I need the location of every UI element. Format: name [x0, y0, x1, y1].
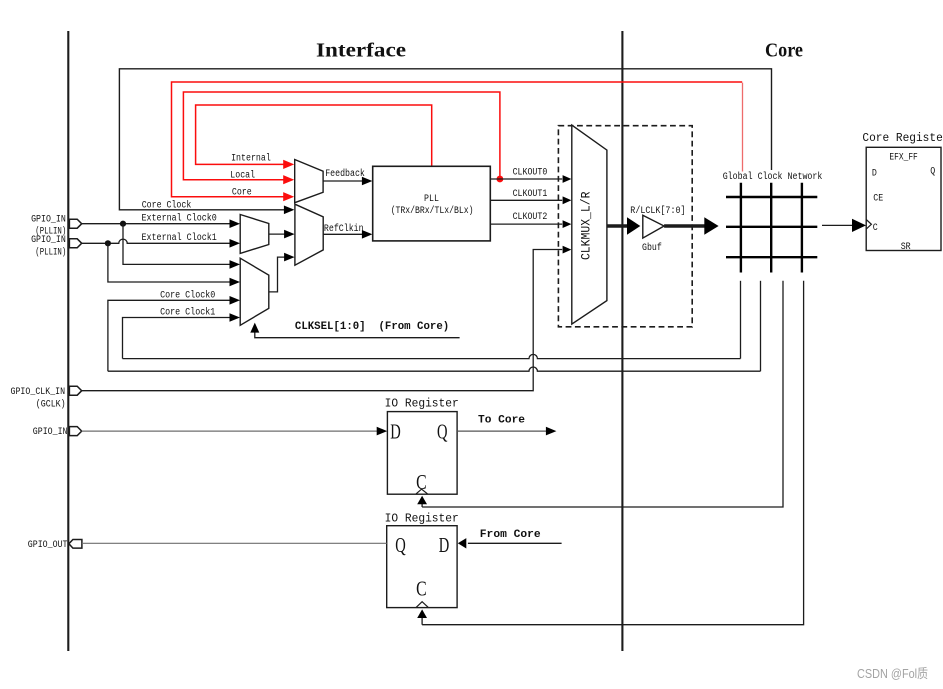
- svg-text:RefClkin: RefClkin: [324, 223, 364, 235]
- wire External Clock1 (hops over branch A): [82, 239, 232, 243]
- svg-text:Gbuf: Gbuf: [642, 242, 662, 254]
- register block IO Register 2: [387, 526, 457, 608]
- junction dot B on External Clock1: [105, 240, 111, 246]
- arrow Core Clock1 into U4: [230, 313, 241, 322]
- wire loop A (global net column1 down, to Core Clock1): [740, 281, 742, 359]
- svg-text:(PLLIN): (PLLIN): [35, 246, 66, 258]
- svg-text:Interface: Interface: [316, 40, 406, 62]
- arrow into Core Register C: [852, 219, 866, 232]
- svg-text:Q: Q: [395, 533, 406, 557]
- arrow into PLL RefClkin: [362, 230, 373, 239]
- svg-text:IO Register: IO Register: [385, 397, 459, 411]
- red arrow Internal input: [283, 160, 294, 169]
- svg-text:R/LCLK[7:0]: R/LCLK[7:0]: [630, 205, 685, 217]
- wire Core Clock1 (riser from loop A): [123, 318, 232, 359]
- arrow up into ioreg2 C: [417, 609, 427, 618]
- svg-text:Core Clock1: Core Clock1: [160, 306, 215, 318]
- svg-text:Core: Core: [765, 40, 803, 62]
- arrow CLKOUT0 into CLKMUX: [563, 175, 572, 183]
- wire red Core feedback vertical (from Global Clock Network, pale): [742, 83, 744, 172]
- grid row 3: [726, 256, 817, 258]
- wire GPIO_IN to D: [82, 430, 379, 432]
- register block EFX_FF: [866, 147, 941, 250]
- red arrow Core input: [283, 192, 294, 201]
- arrow U4 output into U2: [284, 253, 295, 262]
- wire thick CLKMUX output: [607, 224, 628, 228]
- svg-text:Local: Local: [230, 170, 255, 182]
- wire grid to Core Register clock: [822, 224, 854, 226]
- mux U3 (External Clock select): [240, 215, 269, 254]
- pin GPIO_OUT: [69, 540, 82, 549]
- svg-text:Q: Q: [930, 166, 935, 177]
- arrow CLKSEL into U4 bottom: [250, 323, 259, 333]
- svg-text:D: D: [439, 533, 450, 557]
- wire red Local feedback loop (from CLKOUT0 junction): [183, 92, 500, 180]
- grid column 3: [801, 183, 803, 273]
- wire red Core feedback loop (outer): [172, 82, 743, 197]
- wire U4 output to U2: [269, 257, 286, 292]
- pin GPIO_CLK_IN (GCLK): [69, 386, 81, 395]
- arrow CLKOUT1 into CLKMUX: [563, 196, 572, 204]
- wire Core Clock feedback (from Global Clock Network top loop): [119, 69, 771, 210]
- wire From Core to D: [468, 542, 562, 544]
- svg-text:CLKOUT2: CLKOUT2: [513, 212, 548, 223]
- svg-text:CLKOUT0: CLKOUT0: [513, 167, 548, 178]
- svg-text:SR: SR: [901, 242, 911, 253]
- grid column 1: [740, 183, 742, 273]
- junction dot CLKOUT0/Local (red): [497, 176, 504, 183]
- svg-text:Feedback: Feedback: [325, 168, 365, 180]
- svg-text:GPIO_IN: GPIO_IN: [31, 235, 66, 246]
- wire CLKOUT0: [490, 178, 562, 180]
- wire loop A horizontal (hops over GCLK riser): [123, 354, 741, 358]
- clock wedge (ioreg2): [416, 602, 428, 608]
- arrow External Clock1 into U3: [230, 239, 241, 248]
- wire clock into ioreg2: [421, 617, 423, 625]
- svg-text:Internal: Internal: [231, 152, 271, 164]
- arrow thick into Gbuf: [627, 217, 640, 235]
- register block IO Register 1: [387, 412, 457, 495]
- wire loop B (global net column2 down, to Core Clock0): [760, 281, 762, 371]
- wire thick Gbuf output: [664, 224, 704, 228]
- svg-text:Core Clock0: Core Clock0: [160, 289, 215, 301]
- svg-text:Core: Core: [232, 187, 252, 198]
- svg-text:C: C: [416, 576, 427, 600]
- mux U2 (RefClkin select): [295, 204, 323, 265]
- wire U3 output to U2: [269, 233, 286, 235]
- wire Q to core: [457, 430, 547, 432]
- wire clock into ioreg1: [421, 503, 423, 507]
- svg-text:CLKOUT1: CLKOUT1: [513, 189, 548, 200]
- arrow branch B into U4: [230, 278, 241, 287]
- pin GPIO_IN (PLLIN) upper: [69, 219, 81, 228]
- svg-text:External Clock1: External Clock1: [142, 232, 217, 244]
- wire loop B horizontal (hops over GCLK riser): [108, 367, 761, 371]
- arrow Core Clock0 into U4: [230, 296, 241, 305]
- interface/core boundary: core column line: [621, 31, 623, 651]
- svg-text:C: C: [416, 470, 427, 494]
- arrow into PLL Feedback: [362, 177, 373, 186]
- wire red Internal feedback loop (from PLL top): [196, 105, 432, 166]
- grid row 1: [726, 196, 817, 198]
- pin GPIO_IN (io): [69, 427, 81, 436]
- wire External Clock0: [82, 223, 232, 225]
- svg-text:(TRx/BRx/TLx/BLx): (TRx/BRx/TLx/BLx): [391, 205, 474, 217]
- arrow branch A into U4: [230, 260, 241, 269]
- grid column 2: [770, 183, 772, 273]
- wire CLKSEL[1:0] select line: [255, 332, 460, 338]
- svg-text:GPIO_IN: GPIO_IN: [31, 214, 66, 225]
- wire Feedback mux output to PLL: [323, 180, 363, 182]
- interface/core boundary: IO column line: [67, 31, 69, 651]
- dashed block boundary (clock mux region): [558, 126, 692, 327]
- buffer Gbuf: [643, 215, 664, 238]
- svg-text:From Core: From Core: [480, 529, 541, 541]
- svg-text:CE: CE: [873, 193, 883, 204]
- mux U1 (Feedback select): [295, 160, 323, 203]
- junction dot A on External Clock0: [120, 221, 126, 227]
- grid row 2: [726, 226, 817, 228]
- svg-text:PLL: PLL: [424, 194, 439, 205]
- clock wedge (core reg): [866, 220, 871, 230]
- svg-text:D: D: [872, 169, 877, 180]
- arrow into ioreg2 D: [458, 538, 467, 548]
- arrow GCLK into CLKMUX: [563, 246, 572, 254]
- wire CLKOUT1: [490, 199, 562, 201]
- arrow U3 output into U2: [284, 230, 295, 239]
- arrow External Clock0 into U3: [230, 219, 241, 228]
- arrow CLKOUT2 into CLKMUX: [563, 220, 572, 228]
- arrow into RefClkin mux (Core Clock): [284, 206, 295, 215]
- svg-text:GPIO_IN: GPIO_IN: [33, 427, 68, 438]
- pin GPIO_IN (PLLIN) lower: [69, 239, 81, 248]
- wire ioreg2 Q to GPIO_OUT: [82, 542, 387, 544]
- PLL block: [373, 166, 491, 241]
- arrow To Core: [546, 427, 557, 436]
- red arrow Local input: [283, 175, 294, 184]
- arrow thick into Global Clock Network: [704, 217, 718, 235]
- svg-text:C: C: [873, 223, 878, 234]
- wire RefClkin mux output to PLL: [323, 233, 363, 235]
- wire drop to IO Register1 clock: [422, 281, 783, 507]
- svg-text:GPIO_OUT: GPIO_OUT: [28, 540, 68, 551]
- wire drop to IO Register2 clock: [422, 281, 803, 625]
- svg-text:GPIO_CLK_IN: GPIO_CLK_IN: [11, 387, 66, 398]
- mux CLKMUX_L/R: [572, 125, 607, 324]
- svg-text:Global Clock Network: Global Clock Network: [723, 171, 823, 183]
- mux U4 (Core Clock select): [240, 258, 269, 325]
- svg-text:(GCLK): (GCLK): [36, 398, 66, 410]
- wire branch A (dot A down to U4 input1): [123, 224, 231, 265]
- svg-text:To Core: To Core: [478, 414, 525, 426]
- arrow up into ioreg1 C: [417, 496, 427, 505]
- wire branch B (dot B down to U4 input2): [108, 243, 231, 282]
- svg-text:CLKSEL[1:0] (From Core): CLKSEL[1:0] (From Core): [295, 321, 449, 333]
- svg-text:D: D: [390, 420, 401, 444]
- svg-text:Core Register: Core Register: [862, 131, 943, 145]
- wire Core Clock0 (riser from loop B): [108, 300, 231, 371]
- arrow into ioreg1 D: [377, 427, 388, 436]
- svg-text:EFX_FF: EFX_FF: [889, 152, 917, 163]
- clock wedge (ioreg1): [416, 489, 428, 494]
- svg-text:Core Clock: Core Clock: [142, 200, 192, 212]
- svg-text:IO Register: IO Register: [385, 512, 459, 526]
- svg-text:CSDN @Fol质: CSDN @Fol质: [857, 666, 928, 681]
- wire GCLK to CLKMUX input4: [82, 250, 563, 391]
- svg-text:CLKMUX_L/R: CLKMUX_L/R: [578, 191, 593, 260]
- svg-text:Q: Q: [437, 420, 448, 444]
- wire CLKOUT2: [490, 223, 562, 225]
- svg-text:External Clock0: External Clock0: [142, 212, 217, 224]
